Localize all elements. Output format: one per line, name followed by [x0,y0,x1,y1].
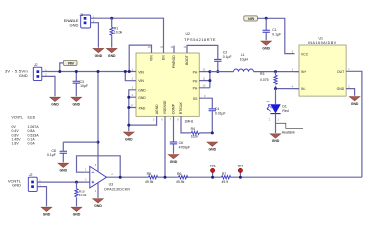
ground (C4/R4) [207,142,218,151]
svg-text:0.1µF: 0.1µF [223,55,232,59]
svg-text:9: 9 [204,95,206,98]
svg-text:1: 1 [278,118,280,121]
node C3 junction [75,70,78,73]
svg-text:2: 2 [348,85,350,88]
svg-text:3: 3 [132,87,134,90]
connector J1 [64,13,95,28]
wire AGND loop [129,116,157,125]
svg-text:GND: GND [337,87,345,91]
ground (C3) [71,97,82,106]
svg-text:2: 2 [95,190,97,193]
svg-text:10µF: 10µF [80,84,88,88]
resistor R6 [176,172,188,184]
svg-text:0.075: 0.075 [260,78,269,82]
svg-text:49.9k: 49.9k [145,180,154,184]
svg-text:R8: R8 [147,172,151,176]
svg-text:PAD: PAD [139,107,146,111]
svg-text:8: 8 [177,119,179,122]
svg-text:C2: C2 [223,51,227,55]
svg-text:PH: PH [193,87,198,91]
net flag VIN (input rail) [60,60,77,71]
wire J3 pin1 to op-amp + input [37,181,90,183]
svg-text:R6: R6 [177,172,181,176]
node op-amp output [119,176,122,179]
op-amp U2 body: buck converter IC [136,32,216,116]
svg-text:5: 5 [95,164,97,167]
svg-text:J3: J3 [29,173,33,177]
pin SS (right) [199,98,212,108]
svg-text:J1: J1 [80,13,84,17]
wire VSENSE to feedback rail [164,116,166,177]
svg-text:VCNTL: VCNTL [12,116,24,120]
wire J1 pin1 to EN [91,18,164,53]
connector J2 [5,63,47,80]
ground (C6) [168,155,179,164]
wire VIN rail to op-amp supply [97,72,99,143]
pin PWRGD (top) [173,46,175,53]
pin IN- [295,88,299,90]
node IN+ [274,70,277,73]
svg-text:C1: C1 [272,28,276,32]
svg-text:10.0k: 10.0k [79,193,87,197]
svg-text:2: 2 [269,118,271,121]
pin PH stubs (right) [199,72,210,88]
table VCNTL/ILED [12,116,40,146]
svg-text:1.8V: 1.8V [12,142,20,146]
pin PAD 17 [127,106,130,109]
svg-text:AGND: AGND [155,104,159,114]
svg-text:5: 5 [153,119,155,122]
svg-text:1: 1 [348,68,350,71]
svg-text:VCC: VCC [301,52,309,56]
svg-text:R4: R4 [191,127,195,131]
svg-text:3: 3 [85,179,87,182]
resistor R3 (shunt) [260,72,277,89]
ground (J1 pin2) [93,48,104,57]
svg-text:PH: PH [193,79,198,83]
svg-text:VIN: VIN [248,17,254,21]
test point TP6 [210,164,216,177]
wire PH node to L1 [210,71,234,73]
capacitor C1 [263,18,282,40]
wire op-amp V- to ground [97,183,99,198]
svg-text:U1: U1 [319,36,324,40]
node V+ / C8 junction [97,141,100,144]
svg-text:VIN: VIN [68,62,74,66]
svg-text:SS: SS [193,97,198,101]
wire J3 pin2 to ground [37,187,46,207]
svg-text:12: 12 [203,68,206,71]
ground (J2 pin2) [50,97,61,106]
wire bottom feedback rail [107,176,362,178]
svg-text:4700pF: 4700pF [179,145,191,149]
svg-text:11: 11 [203,77,206,80]
svg-text:GND: GND [12,183,21,188]
svg-text:49.9k: 49.9k [176,180,185,184]
svg-text:Red: Red [282,109,288,113]
svg-text:0.1µF: 0.1µF [47,153,56,157]
pin VIN (top) with loop to rail [129,45,151,71]
svg-text:EN: EN [162,55,166,60]
ground (R10) [71,207,82,216]
wire GND pins column [129,90,136,132]
svg-text:OUT: OUT [337,70,344,74]
svg-text:IN-: IN- [301,87,306,91]
svg-text:VIN: VIN [138,70,144,74]
pin VIN 2 (left) jog [125,72,136,81]
node C1 junction [265,17,268,20]
svg-text:14: 14 [170,46,173,49]
svg-text:R7: R7 [222,172,226,176]
svg-text:D1: D1 [282,105,286,109]
inductor L1 [234,53,254,71]
capacitor C6 on COMP [170,116,190,153]
svg-text:GND: GND [19,73,28,78]
wire J2 pin2 to ground [42,76,55,96]
node VIN flag junction [58,70,61,73]
wire feedback loop [77,156,121,177]
svg-text:COMP: COMP [172,103,176,114]
node C2/PH junction [216,70,219,73]
current monitor U1 [299,36,346,96]
op-amp U3 [85,164,130,193]
ground (J3 pin2) [41,207,52,216]
heatsink bracket [276,123,303,134]
resistor R10 [75,182,87,206]
wire J1 pin2 to ground [91,23,99,48]
svg-text:0.0A: 0.0A [28,142,36,146]
wire VIN rail [42,71,136,73]
svg-text:U2: U2 [186,32,191,36]
U2 top pin names [150,55,190,69]
svg-text:0.01µF: 0.01µF [215,111,226,115]
pin RT/CLK wire and resistor R4 [181,116,212,138]
svg-text:162k: 162k [191,135,199,139]
net flag VIN (INA169 supply) [244,16,258,21]
svg-text:4: 4 [111,173,113,176]
svg-text:GND: GND [70,22,79,27]
ground (C1) [261,41,272,50]
svg-text:3: 3 [292,68,294,71]
ground (D1) [270,134,281,143]
svg-text:GND: GND [138,96,146,100]
svg-text:TPS54218RTE: TPS54218RTE [184,37,216,42]
svg-text:7: 7 [170,119,172,122]
svg-text:4: 4 [132,94,134,97]
svg-text:RT/CLK: RT/CLK [179,101,183,114]
pin OUT wire down right edge [346,71,362,177]
connector J3 [8,173,41,191]
svg-text:BOOT: BOOT [185,55,189,65]
ground (U2 GND/PAD) [124,132,135,141]
node IN- [274,87,277,90]
pin IN+ [295,71,299,73]
ground (U3 V-) [93,199,104,208]
svg-text:0.1µF: 0.1µF [272,32,281,36]
LED D1 [267,89,289,133]
wire L1 to IN+ node [254,71,300,73]
pin GND of U1 [346,89,355,96]
node R10 junction [75,181,78,184]
svg-text:GND: GND [138,88,146,92]
node op-amp supply branch [97,70,100,73]
capacitor C3 [73,72,88,97]
svg-text:OPA313IDCKR: OPA313IDCKR [104,188,130,192]
ground (C8) [58,163,69,172]
svg-text:VSENSE: VSENSE [163,100,167,114]
svg-text:10µH: 10µH [240,58,249,62]
svg-text:Heatsink: Heatsink [282,130,295,134]
svg-text:VIN: VIN [150,55,154,61]
svg-text:49.9: 49.9 [222,180,229,184]
svg-text:17: 17 [131,104,134,107]
test point TP7 [238,164,244,177]
svg-text:1: 1 [85,169,87,172]
U2 bottom pin names [155,100,183,114]
capacitor C8 [47,142,98,162]
ground (R1) [106,48,117,57]
svg-text:PWRGD: PWRGD [172,55,176,69]
svg-text:16: 16 [148,46,151,49]
svg-text:10: 10 [203,85,206,88]
wire IN- row [276,88,300,90]
wire op-amp V+ supply [97,142,99,171]
resistor R8 [145,172,158,184]
svg-text:J2: J2 [34,63,38,67]
svg-text:ILED: ILED [28,116,36,120]
pin BOOT (top) [187,45,218,59]
svg-text:6: 6 [161,119,163,122]
svg-text:TP7: TP7 [238,164,244,168]
svg-text:U3: U3 [109,183,114,187]
capacitor C2 [214,51,231,72]
resistor R7 [222,172,231,184]
svg-text:13: 13 [183,46,186,49]
wire VIN flag to VCC [257,18,294,53]
svg-text:R3: R3 [260,72,264,76]
svg-text:INA169AIDBV: INA169AIDBV [308,41,337,45]
node VSENSE junction [164,176,167,179]
svg-text:IN+: IN+ [301,70,306,74]
resistor R1 [110,18,122,47]
svg-text:PH: PH [193,70,198,74]
svg-text:VIN: VIN [138,79,144,83]
svg-text:TP6: TP6 [210,164,216,168]
svg-text:1MHz: 1MHz [185,119,194,123]
ground (U1) [349,97,360,106]
node C4/R4 junction [211,131,214,134]
node R1/EN junction [110,17,113,20]
svg-text:4: 4 [292,85,294,88]
capacitor C4 [209,107,226,133]
svg-text:10.0k: 10.0k [114,31,123,35]
